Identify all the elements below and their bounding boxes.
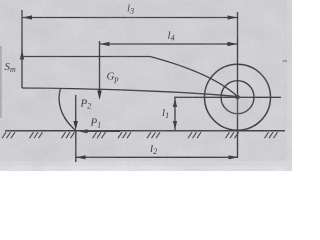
- arrowhead l2 left: [76, 155, 86, 159]
- force line Gp vertical: [99, 41, 101, 96]
- drawbar front hook curve: [59, 89, 76, 131]
- right edge small scan dash: [283, 60, 288, 62]
- arrowhead P2 down: [74, 121, 78, 131]
- arrowhead l1 up: [173, 98, 177, 107]
- dimension line l3: [22, 17, 238, 19]
- arrowhead Gp down: [97, 91, 101, 101]
- arrowhead l2 right: [229, 155, 239, 159]
- arrowhead P1 left: [78, 129, 88, 133]
- dimension line l2: [76, 156, 238, 158]
- wheel hub dot: [235, 95, 239, 99]
- dimension line l1: [174, 98, 176, 130]
- arrowhead l3 left: [22, 15, 32, 19]
- left edge scan smudge: [0, 46, 2, 118]
- arrowhead l4 right: [228, 42, 238, 46]
- ground line: [5, 130, 285, 132]
- left extension line (hitch vertical): [21, 10, 23, 88]
- axle centre line: [174, 96, 281, 98]
- scanned paper background: [0, 0, 292, 171]
- force line P1 horizontal: [81, 130, 120, 132]
- ground hatching: [2, 132, 278, 138]
- arrowhead l4 left: [100, 42, 110, 46]
- l2 left extension line: [75, 131, 77, 162]
- wheel inner circle (hub): [221, 81, 254, 114]
- arrowhead Sa up: [20, 50, 24, 60]
- drawbar bottom edge: [22, 88, 238, 97]
- right edge light margin: [287, 0, 292, 171]
- right extension line through wheel centre: [237, 12, 239, 158]
- arrowhead l1 down: [173, 121, 177, 130]
- arrowhead l3 right: [228, 15, 238, 19]
- dimension line l4: [100, 43, 238, 45]
- drawbar top edge: [22, 57, 238, 97]
- wheel outer circle: [205, 64, 271, 130]
- force line P2 vertical: [75, 95, 77, 126]
